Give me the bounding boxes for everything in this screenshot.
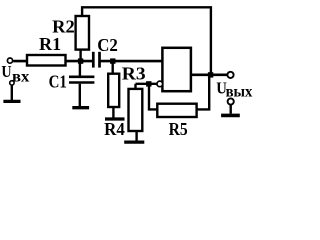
capacitor C1 stub from node A bbox=[79, 61, 81, 76]
svg-text:U: U bbox=[1, 62, 11, 81]
wire: R5 left connection bbox=[149, 84, 158, 110]
wire: feedback vertical lower section and R5 right stub bbox=[197, 75, 209, 110]
resistor R1 bbox=[27, 55, 66, 66]
svg-text:R5: R5 bbox=[169, 119, 188, 139]
wire: R3 top stub bbox=[134, 84, 136, 89]
op-amp U1 rectangle bbox=[162, 48, 191, 91]
wire: node between C2 and op-amp input bbox=[100, 60, 163, 63]
ground bar at output bbox=[221, 114, 240, 118]
wire: R2 bottom stub bbox=[79, 50, 81, 62]
node A junction dot (R2/C1 tap) bbox=[78, 58, 83, 63]
output lower terminal circle bbox=[228, 98, 234, 104]
ground bar under R3 bbox=[124, 141, 144, 144]
svg-text:R4: R4 bbox=[104, 119, 125, 139]
input lower terminal circle bbox=[10, 81, 14, 85]
resistor R5 bbox=[157, 104, 196, 117]
ground bar at input bbox=[3, 100, 20, 103]
wire: output from op-amp bbox=[191, 74, 227, 77]
wire: output ground stub bbox=[229, 105, 231, 114]
capacitor C2 left plate bbox=[92, 52, 95, 68]
output node junction dot bbox=[208, 72, 213, 77]
ground bar under C1 bbox=[72, 106, 89, 109]
output terminal circle bbox=[227, 72, 233, 78]
input terminal circle bbox=[7, 58, 12, 63]
wire: R4 ground stub bbox=[112, 107, 114, 118]
capacitor C1 bottom plate bbox=[69, 81, 94, 84]
ground bar under R4 bbox=[105, 117, 125, 120]
wire: R3 ground stub bbox=[135, 131, 137, 141]
resistor R3 bbox=[129, 89, 143, 131]
svg-text:C1: C1 bbox=[49, 72, 67, 92]
wire: top feedback rail from R2 top to output node bbox=[82, 7, 211, 75]
wire: input ground stub bbox=[11, 85, 13, 100]
wire: R4 top stub bbox=[111, 61, 113, 74]
node C junction dot (R5 tap on inverting wire) bbox=[146, 81, 151, 86]
resistor R4 bbox=[108, 74, 119, 107]
resistor R2 bbox=[76, 16, 89, 50]
wire: C1 ground stub bbox=[79, 84, 81, 107]
capacitor C2 right plate bbox=[98, 52, 101, 68]
svg-text:R3: R3 bbox=[122, 64, 146, 84]
wire: inverting input wire at y=83.8 bbox=[136, 83, 163, 85]
node B junction dot (R4 tap) bbox=[110, 58, 115, 63]
svg-text:C2: C2 bbox=[97, 35, 118, 55]
capacitor C1 top plate bbox=[69, 76, 94, 79]
inverting input inversion circle bbox=[157, 81, 163, 87]
svg-text:R1: R1 bbox=[39, 34, 61, 54]
wire: main input node wire at y=61 bbox=[13, 60, 93, 63]
